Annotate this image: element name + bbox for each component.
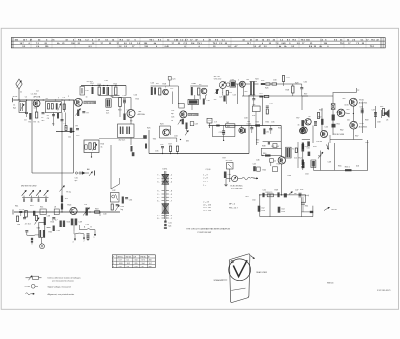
svg-text:4 -: 4 -	[157, 197, 160, 199]
svg-text:285: 285	[135, 263, 138, 265]
svg-text:2: 2	[26, 100, 27, 102]
svg-text:3 -: 3 -	[157, 181, 160, 183]
svg-text:OC44: OC44	[247, 124, 252, 126]
svg-text:214: 214	[135, 266, 138, 268]
svg-text:C30: C30	[273, 80, 276, 82]
svg-text:20v: 20v	[347, 120, 350, 122]
svg-text:R57: R57	[304, 94, 307, 96]
svg-text:C23: C23	[151, 83, 154, 85]
svg-text:R56 1: R56 1	[345, 167, 350, 169]
svg-text:C55: C55	[325, 127, 328, 129]
svg-text:- 6: - 6	[170, 178, 172, 180]
svg-text:TS7: TS7	[296, 118, 299, 120]
svg-text:R12: R12	[114, 84, 117, 86]
svg-text:1v8: 1v8	[17, 224, 20, 226]
svg-text:452 kc/s: 452 kc/s	[119, 140, 126, 142]
svg-text:TS8 BC148B: TS8 BC148B	[333, 134, 345, 136]
svg-text:C42: C42	[112, 190, 115, 192]
svg-text:TS11: TS11	[359, 123, 365, 125]
svg-text:R63: R63	[380, 106, 383, 108]
svg-text:22 -- 134: 22 -- 134	[203, 210, 211, 212]
svg-text:0v9: 0v9	[111, 96, 114, 98]
svg-text:R26: R26	[261, 80, 264, 82]
svg-text:C26: C26	[171, 117, 174, 119]
svg-text:R15: R15	[136, 99, 139, 101]
svg-text:C24: C24	[171, 110, 174, 112]
svg-text:R48 470: R48 470	[266, 192, 273, 194]
svg-text:460: 460	[149, 260, 152, 262]
svg-text:0v6: 0v6	[356, 166, 359, 168]
svg-text:- 5: - 5	[170, 197, 172, 199]
svg-text:C3: C3	[24, 120, 26, 122]
svg-text:C45: C45	[271, 146, 274, 148]
svg-text:1 --: 1 --	[203, 185, 206, 187]
svg-text:0 45: 0 45	[105, 80, 109, 82]
svg-text:R18: R18	[95, 209, 98, 211]
svg-text:452: 452	[227, 126, 230, 128]
svg-text:S12: S12	[65, 198, 68, 200]
svg-text:2 -: 2 -	[157, 194, 160, 196]
svg-text:C31: C31	[266, 132, 269, 134]
svg-text:TS6 AF117: TS6 AF117	[188, 114, 197, 117]
svg-text:R38: R38	[262, 146, 265, 148]
svg-text:C29: C29	[219, 132, 222, 134]
svg-text:517: 517	[119, 260, 122, 262]
svg-text:C39: C39	[57, 230, 60, 232]
svg-text:- 9: - 9	[170, 215, 172, 217]
svg-text:C38: C38	[47, 216, 50, 218]
svg-text:C9: C9	[63, 97, 65, 99]
svg-text:R65: R65	[49, 232, 52, 234]
svg-text:C16: C16	[134, 95, 137, 97]
svg-text:C4: C4	[36, 91, 38, 93]
svg-text:9.6: 9.6	[127, 266, 130, 268]
svg-text:4v5: 4v5	[343, 98, 346, 100]
svg-text:5 -: 5 -	[157, 178, 160, 180]
svg-text:2a: 2a	[169, 130, 171, 132]
svg-text:2: 2	[113, 263, 114, 265]
svg-text:1v2: 1v2	[294, 158, 297, 160]
svg-text:- 8: - 8	[170, 191, 172, 193]
svg-text:C39: C39	[79, 222, 82, 224]
svg-text:R11: R11	[15, 206, 18, 208]
svg-text:AC128/01: AC128/01	[359, 125, 367, 128]
svg-text:4.7 2k2: 4.7 2k2	[25, 223, 31, 225]
svg-text:C33: C33	[160, 144, 163, 146]
svg-text:10 -- 118: 10 -- 118	[203, 207, 210, 209]
svg-text:22 -- 126: 22 -- 126	[203, 204, 211, 206]
svg-text:1n: 1n	[20, 92, 22, 94]
svg-text:0v15: 0v15	[345, 105, 349, 107]
svg-text:C52: C52	[261, 207, 264, 209]
svg-text:R51: R51	[300, 189, 303, 191]
svg-text:0 45: 0 45	[231, 79, 235, 81]
svg-text:S1: S1	[46, 98, 48, 100]
svg-text:C60: C60	[365, 142, 368, 144]
svg-text:C20: C20	[127, 110, 130, 112]
svg-text:460: 460	[149, 266, 152, 268]
svg-text:C18: C18	[123, 95, 126, 97]
svg-text:THE CIRCUIT DIAGRAM HAS BE: THE CIRCUIT DIAGRAM HAS BEEN DRAWN IN	[186, 228, 230, 231]
svg-text:1k: 1k	[101, 146, 103, 148]
svg-text:Unless otherwise stated, all v: Unless otherwise stated, all voltages	[48, 276, 81, 279]
svg-text:17.5 k: 17.5 k	[19, 209, 24, 211]
svg-text:C14: C14	[90, 83, 93, 85]
svg-text:C41: C41	[168, 223, 171, 225]
svg-text:R16: R16	[51, 222, 54, 224]
svg-text:R20: R20	[216, 90, 219, 92]
svg-text:B FM: B FM	[13, 96, 18, 98]
svg-text:R64: R64	[305, 206, 308, 208]
svg-text:9B8 04: 9B8 04	[327, 283, 334, 285]
svg-text:R17: R17	[156, 83, 159, 85]
svg-text:R34: R34	[278, 128, 281, 130]
svg-text:R35: R35	[256, 140, 259, 142]
svg-text:R37: R37	[223, 158, 226, 160]
svg-text:C11: C11	[68, 137, 71, 139]
svg-text:FM Mc: FM Mc	[141, 256, 147, 258]
svg-text:log: log	[121, 209, 123, 211]
svg-text:C46: C46	[256, 160, 259, 162]
svg-text:TS2b: TS2b	[67, 205, 71, 207]
svg-text:R16: R16	[101, 144, 104, 146]
svg-text:S13: S13	[67, 222, 70, 224]
svg-text:C12: C12	[76, 135, 79, 137]
svg-text:L1 452: L1 452	[31, 94, 38, 96]
svg-text:1 -- 9: 1 -- 9	[203, 175, 207, 177]
svg-text:R8: R8	[65, 128, 67, 130]
svg-text:976: 976	[119, 266, 122, 268]
svg-text:8 -: 8 -	[157, 218, 160, 220]
svg-text:1k: 1k	[274, 161, 276, 163]
svg-text:6.1: 6.1	[127, 260, 130, 262]
svg-text:FM = 10.7: FM = 10.7	[229, 207, 238, 209]
svg-text:R55: R55	[338, 166, 341, 168]
svg-text:C33: C33	[244, 118, 247, 120]
svg-text:TR2: TR2	[252, 104, 255, 106]
svg-text:R13: R13	[118, 110, 121, 112]
svg-text:3: 3	[165, 87, 166, 89]
svg-text:C10: C10	[85, 90, 88, 92]
svg-text:10.7: 10.7	[149, 263, 153, 265]
svg-text:C21: C21	[172, 79, 175, 81]
svg-text:C28: C28	[195, 124, 198, 126]
svg-text:1n: 1n	[171, 120, 173, 122]
svg-text:Alignment, see printed matter: Alignment, see printed matter	[48, 293, 75, 296]
svg-text:S14: S14	[37, 228, 40, 230]
svg-text:- 3: - 3	[170, 194, 172, 196]
svg-text:9 -: 9 -	[157, 191, 160, 193]
svg-text:R22: R22	[229, 92, 232, 94]
svg-text:AF116A: AF116A	[138, 113, 146, 116]
svg-text:6v: 6v	[309, 116, 311, 118]
svg-text:R33: R33	[256, 121, 259, 123]
svg-text:C53: C53	[305, 174, 308, 176]
svg-text:4u7: 4u7	[276, 146, 279, 148]
svg-text:4: 4	[73, 241, 74, 243]
svg-text:R25: R25	[147, 128, 150, 130]
svg-text:4k7: 4k7	[294, 193, 297, 195]
svg-text:3v: 3v	[298, 125, 300, 127]
svg-text:5: 5	[222, 92, 223, 94]
svg-text:C13: C13	[233, 95, 236, 97]
svg-text:2: 2	[84, 241, 85, 243]
svg-text:TS5: TS5	[153, 139, 156, 141]
svg-text:96: 96	[142, 266, 144, 268]
svg-text:L10: L10	[84, 204, 87, 206]
svg-text:1v: 1v	[86, 96, 88, 98]
svg-text:2: 2	[68, 96, 69, 98]
svg-text:C6: C6	[47, 118, 49, 120]
svg-text:R14: R14	[40, 207, 43, 209]
svg-text:REAR VIEW: REAR VIEW	[256, 271, 267, 274]
svg-text:2k2: 2k2	[256, 142, 259, 144]
svg-text:C47: C47	[295, 190, 298, 192]
svg-text:R46: R46	[288, 175, 291, 177]
svg-text:L8: L8	[54, 207, 56, 209]
svg-text:0v2: 0v2	[245, 91, 248, 93]
svg-text:C59: C59	[86, 224, 89, 226]
svg-text:125u: 125u	[261, 210, 265, 212]
svg-text:4k7: 4k7	[42, 120, 45, 122]
svg-text:R59: R59	[365, 120, 368, 122]
svg-text:C57: C57	[372, 110, 375, 112]
svg-text:VOLTMETER: VOLTMETER	[231, 188, 243, 190]
svg-text:R13: R13	[30, 205, 33, 207]
svg-text:3: 3	[113, 266, 114, 268]
svg-text:R30: R30	[121, 206, 124, 208]
svg-text:LW: LW	[134, 256, 137, 258]
svg-text:R23: R23	[160, 124, 163, 126]
svg-text:2 -- 8: 2 -- 8	[203, 178, 207, 180]
svg-text:S5: S5	[199, 84, 201, 86]
svg-text:R10: R10	[98, 84, 101, 86]
svg-text:R52: R52	[318, 156, 321, 158]
svg-text:C30: C30	[207, 100, 210, 102]
svg-text:T1: T1	[292, 149, 294, 151]
svg-text:R44: R44	[277, 164, 280, 166]
svg-text:R49: R49	[275, 190, 278, 192]
svg-text:C48: C48	[328, 162, 331, 164]
svg-text:C1: C1	[13, 105, 15, 107]
svg-text:S9: S9	[130, 121, 132, 123]
svg-text:B4: B4	[247, 79, 249, 81]
svg-text:125u: 125u	[281, 211, 285, 213]
svg-text:C36: C36	[129, 200, 132, 202]
svg-text:R31: R31	[252, 115, 255, 117]
svg-text:BU1: BU1	[47, 227, 51, 229]
svg-text:C25: C25	[219, 97, 222, 99]
svg-text:SPEAKER: SPEAKER	[214, 279, 224, 282]
svg-text:C32: C32	[304, 82, 307, 84]
svg-text:C2: C2	[25, 97, 27, 99]
svg-text:C5: C5	[41, 117, 43, 119]
svg-text:AF117A: AF117A	[34, 95, 41, 98]
svg-text:C27: C27	[287, 77, 290, 79]
svg-text:R40: R40	[263, 153, 266, 155]
svg-text:- 2: - 2	[170, 175, 172, 177]
svg-text:C43: C43	[228, 174, 231, 176]
svg-text:4p7: 4p7	[171, 113, 174, 115]
svg-text:C34: C34	[174, 136, 177, 138]
svg-text:C56: C56	[360, 107, 363, 109]
svg-text:C 8: C 8	[214, 121, 217, 123]
svg-text:C51: C51	[263, 190, 266, 192]
svg-text:5p6: 5p6	[168, 226, 171, 228]
svg-text:R3: R3	[34, 122, 36, 124]
svg-text:87.5: 87.5	[142, 260, 146, 262]
svg-text:C58: C58	[377, 122, 380, 124]
svg-text:TS10: TS10	[359, 100, 365, 102]
svg-text:R5: R5	[47, 115, 49, 117]
svg-text:- 4: - 4	[170, 181, 172, 183]
svg-text:1: 1	[238, 80, 239, 82]
svg-text:kc/s: kc/s	[106, 113, 109, 115]
svg-text:- 1: - 1	[170, 218, 172, 220]
svg-text:MF = 4: MF = 4	[229, 204, 235, 206]
svg-text:Signal voltage, measured: Signal voltage, measured	[48, 286, 71, 289]
svg-text:R28: R28	[286, 90, 289, 92]
svg-text:4p7: 4p7	[75, 180, 78, 182]
svg-text:MW kc: MW kc	[118, 256, 124, 258]
svg-text:0v1: 0v1	[246, 196, 249, 198]
svg-text:R57: R57	[355, 136, 358, 138]
svg-text:R32: R32	[266, 122, 269, 124]
svg-text:1: 1	[113, 260, 114, 262]
svg-text:are measured to chassis: are measured to chassis	[52, 280, 74, 283]
svg-text:R54: R54	[299, 158, 302, 160]
svg-text:C40: C40	[103, 214, 106, 216]
svg-text:M5: M5	[227, 122, 230, 124]
svg-text:C22: C22	[170, 88, 173, 90]
svg-text:(-) (Batt): (-) (Batt)	[302, 194, 309, 197]
svg-text:R2: R2	[29, 122, 31, 124]
svg-text:R62: R62	[340, 130, 343, 132]
svg-text:6 -: 6 -	[157, 200, 160, 202]
svg-text:OSC 452: OSC 452	[214, 79, 221, 81]
svg-text:R61: R61	[337, 123, 340, 125]
svg-text:MW SW KW UKW: MW SW KW UKW	[21, 185, 37, 187]
svg-text:1v2: 1v2	[214, 99, 217, 101]
svg-text:R6: R6	[52, 124, 54, 126]
svg-text:R9: R9	[76, 126, 78, 128]
svg-text:M4: M4	[186, 141, 189, 143]
svg-text:R27: R27	[169, 144, 172, 146]
svg-text:R21: R21	[192, 83, 195, 85]
svg-text:C35: C35	[271, 122, 274, 124]
svg-text:1k: 1k	[255, 81, 257, 83]
svg-text:3 922 185 40571: 3 922 185 40571	[377, 290, 391, 292]
svg-text:R29: R29	[295, 83, 298, 85]
svg-text:R53: R53	[313, 146, 316, 148]
svg-text:1k: 1k	[38, 122, 40, 124]
svg-text:8p2: 8p2	[13, 107, 16, 109]
svg-text:1v5: 1v5	[34, 108, 37, 110]
svg-text:RU 100: RU 100	[226, 160, 232, 162]
svg-text:1 -: 1 -	[157, 215, 160, 217]
svg-text:150: 150	[135, 260, 138, 262]
svg-text:C44: C44	[253, 164, 256, 166]
svg-text:C50: C50	[307, 148, 310, 150]
svg-text:SW Mc: SW Mc	[126, 256, 132, 258]
svg-text:R18: R18	[163, 84, 166, 86]
svg-text:C35: C35	[155, 151, 158, 153]
svg-text:R26: R26	[265, 88, 268, 90]
svg-text:C54: C54	[281, 208, 284, 210]
svg-text:25 mV: 25 mV	[25, 286, 31, 288]
svg-text:R7: R7	[87, 113, 89, 115]
svg-text:C15: C15	[75, 178, 78, 180]
svg-text:8: 8	[206, 95, 207, 97]
svg-text:R42: R42	[263, 170, 266, 172]
svg-text:7 -: 7 -	[157, 175, 160, 177]
svg-text:- 7: - 7	[170, 200, 172, 202]
svg-text:C17: C17	[270, 103, 273, 105]
svg-text:3 -- 7: 3 -- 7	[203, 181, 207, 183]
svg-text:C,D,E: C,D,E	[206, 169, 212, 171]
svg-text:1620: 1620	[119, 263, 123, 265]
svg-text:POSITION MW: POSITION MW	[198, 232, 212, 234]
svg-text:R27: R27	[260, 93, 263, 95]
svg-text:R58: R58	[319, 110, 322, 112]
svg-text:GR2: GR2	[336, 112, 340, 114]
svg-text:2 -- 24: 2 -- 24	[203, 202, 208, 204]
svg-text:On-Off: On-Off	[331, 209, 337, 211]
svg-text:104: 104	[142, 263, 145, 265]
svg-text:C49 4u: C49 4u	[316, 141, 322, 143]
svg-text:C7: C7	[64, 123, 66, 125]
svg-text:C50: C50	[252, 200, 255, 202]
svg-text:1: 1	[94, 237, 95, 239]
svg-text:AC127/01: AC127/01	[359, 102, 367, 105]
svg-text:7: 7	[58, 98, 59, 100]
svg-text:TS2 AF116: TS2 AF116	[84, 101, 95, 104]
svg-text:18.2: 18.2	[127, 263, 131, 265]
